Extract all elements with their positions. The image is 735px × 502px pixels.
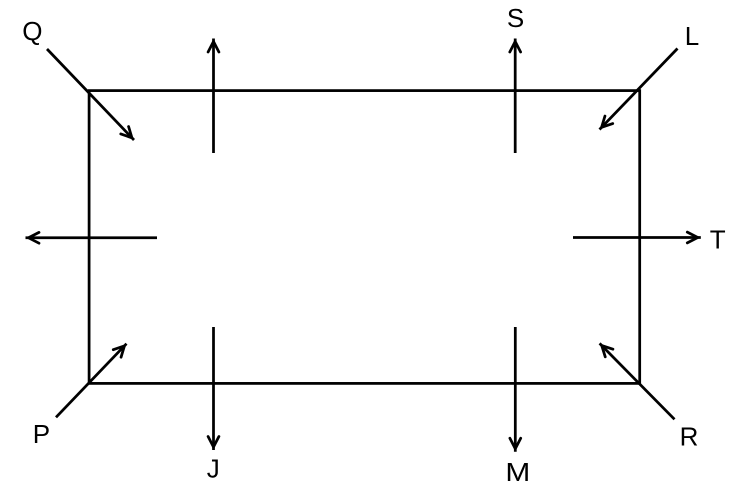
svg-text:R: R: [680, 421, 699, 451]
svg-text:S: S: [507, 3, 524, 33]
svg-text:P: P: [33, 419, 50, 449]
svg-text:Q: Q: [22, 16, 42, 46]
svg-text:M: M: [505, 458, 530, 487]
svg-text:L: L: [685, 21, 699, 51]
svg-text:T: T: [710, 225, 726, 255]
svg-text:J: J: [207, 453, 220, 483]
